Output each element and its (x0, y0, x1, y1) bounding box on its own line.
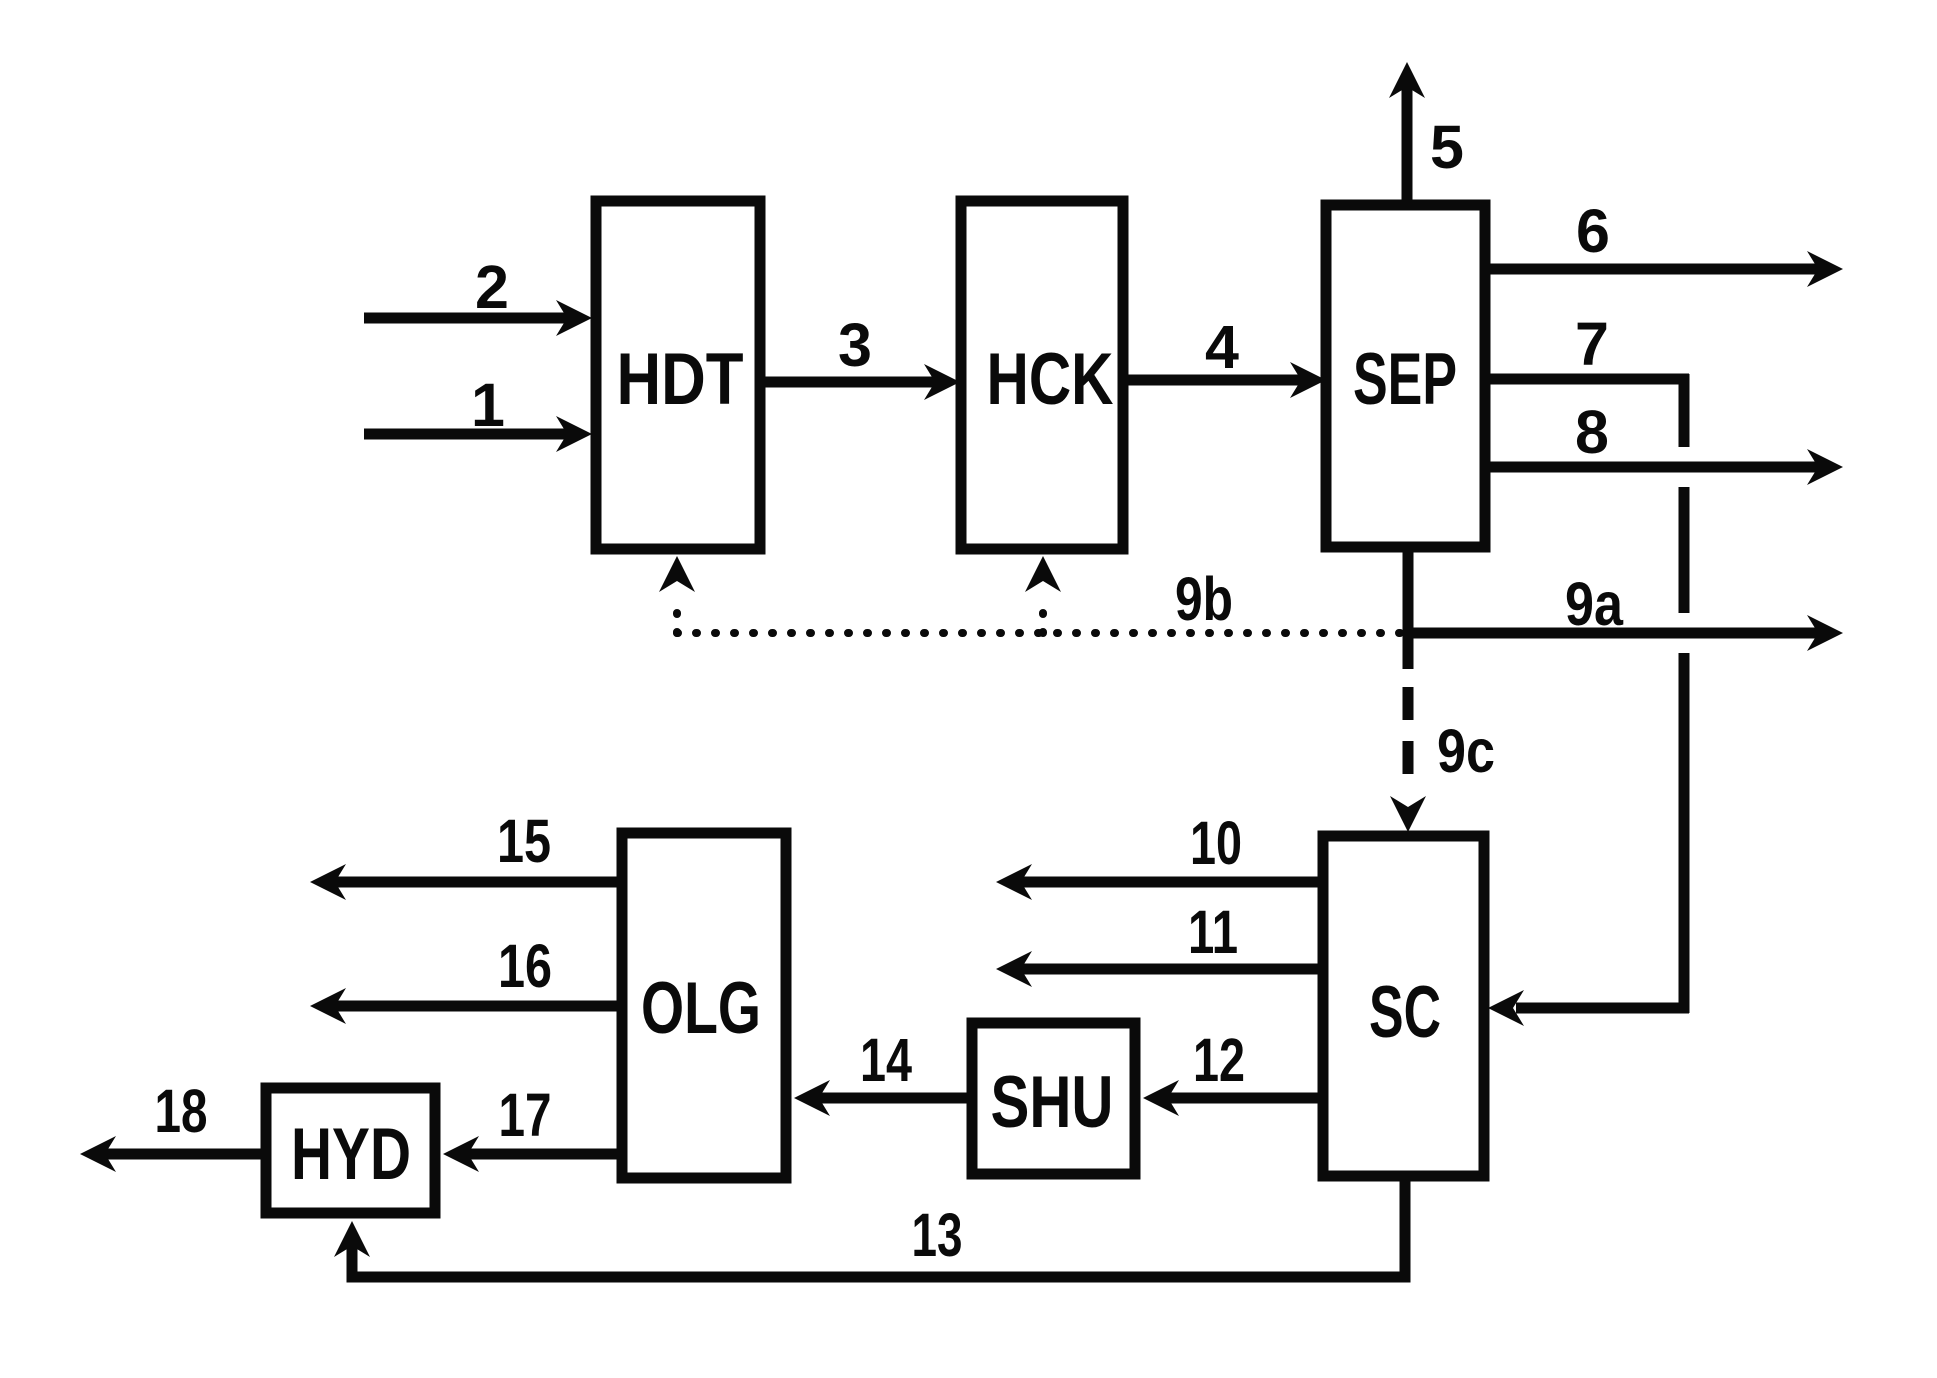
box HYD (266, 1088, 435, 1213)
svg-text:13: 13 (912, 1201, 963, 1269)
arrowhead stream 2 (556, 300, 592, 336)
box HCK (961, 201, 1123, 549)
wire stream 9 stub below SEP (1403, 547, 1414, 669)
arrowhead stream 17 into HYD (443, 1136, 479, 1172)
arrowhead stream 13 into HYD (334, 1221, 370, 1257)
svg-text:18: 18 (155, 1077, 208, 1145)
svg-text:2: 2 (475, 253, 509, 321)
svg-text:9a: 9a (1565, 570, 1624, 638)
arrowhead stream 4 (1290, 362, 1326, 398)
arrowhead stream 8 (1807, 449, 1843, 485)
svg-text:HDT: HDT (617, 339, 744, 420)
wire stream 7 vertical (1679, 374, 1690, 447)
box SC (1323, 836, 1484, 1176)
arrowhead stream 16 (310, 988, 346, 1024)
arrowhead stream 9c into SC (1390, 796, 1426, 832)
arrowheads (80, 62, 1843, 1257)
wire stream 15 (334, 877, 622, 888)
wire stream 6 (1487, 264, 1819, 275)
box SEP (1326, 205, 1485, 547)
wire stream 11 (1020, 964, 1323, 975)
svg-text:16: 16 (498, 932, 552, 1000)
wire stream 16 (334, 1001, 622, 1012)
box HDT (596, 201, 760, 549)
svg-text:HYD: HYD (291, 1114, 411, 1195)
dotted recycle wire 9b (677, 596, 1408, 633)
arrowhead stream 1 (556, 416, 592, 452)
svg-text:15: 15 (497, 807, 551, 875)
wire stream 12 (1167, 1093, 1323, 1104)
arrowhead stream 5 (1389, 62, 1425, 98)
arrowhead stream 3 (924, 364, 960, 400)
arrowhead stream 9a (1807, 615, 1843, 651)
svg-text:7: 7 (1575, 310, 1609, 378)
svg-text:12: 12 (1193, 1026, 1245, 1094)
arrowhead stream 15 (310, 864, 346, 900)
svg-text:8: 8 (1575, 398, 1609, 466)
wire stream 14 (818, 1093, 972, 1104)
arrowhead stream 10 (996, 864, 1032, 900)
svg-text:9c: 9c (1437, 717, 1495, 785)
dotted riser to HCK (1039, 596, 1047, 633)
wire stream 7 into SC (1516, 1003, 1689, 1014)
wire stream 17 (467, 1149, 622, 1160)
svg-text:SHU: SHU (991, 1062, 1114, 1143)
svg-text:11: 11 (1188, 898, 1238, 966)
arrowhead stream 18 (80, 1136, 116, 1172)
svg-text:OLG: OLG (641, 968, 761, 1049)
svg-text:1: 1 (471, 371, 505, 439)
wire stream 1 (364, 429, 568, 440)
arrowhead stream 9b into HDT (659, 556, 695, 592)
wire stream 10 (1020, 877, 1323, 888)
wire stream 8 (1487, 462, 1819, 473)
dashed wire 9c (1403, 687, 1414, 775)
svg-text:9b: 9b (1175, 565, 1233, 633)
wire stream 13 (352, 1176, 1405, 1277)
wire stream 18 (104, 1149, 266, 1160)
arrowhead stream 11 (996, 951, 1032, 987)
wire stream 3 HDT to HCK (760, 377, 936, 388)
svg-text:6: 6 (1576, 197, 1610, 265)
svg-text:3: 3 (838, 311, 872, 379)
svg-text:SEP: SEP (1353, 339, 1457, 420)
dotted riser to HDT (673, 596, 681, 633)
svg-text:10: 10 (1190, 809, 1242, 877)
wire stream 9a (1408, 628, 1819, 639)
svg-text:SC: SC (1369, 972, 1441, 1053)
arrowhead stream 7 into SC (1488, 990, 1524, 1026)
wire stream 4 HCK to SEP (1125, 375, 1302, 386)
svg-text:17: 17 (499, 1081, 552, 1149)
wire stream 7 horizontal (1487, 374, 1689, 385)
box OLG (622, 833, 786, 1178)
arrowhead stream 6 (1807, 251, 1843, 287)
arrowhead stream 9b into HCK (1025, 556, 1061, 592)
svg-text:5: 5 (1430, 113, 1464, 181)
svg-text:4: 4 (1205, 313, 1239, 381)
arrowhead stream 12 (1143, 1080, 1179, 1116)
wire stream 2 (364, 313, 568, 324)
svg-text:14: 14 (860, 1026, 912, 1094)
box SHU (972, 1023, 1135, 1174)
svg-text:HCK: HCK (987, 339, 1114, 420)
wire stream 5 SEP top (1402, 86, 1413, 203)
arrowhead stream 14 into OLG (794, 1080, 830, 1116)
